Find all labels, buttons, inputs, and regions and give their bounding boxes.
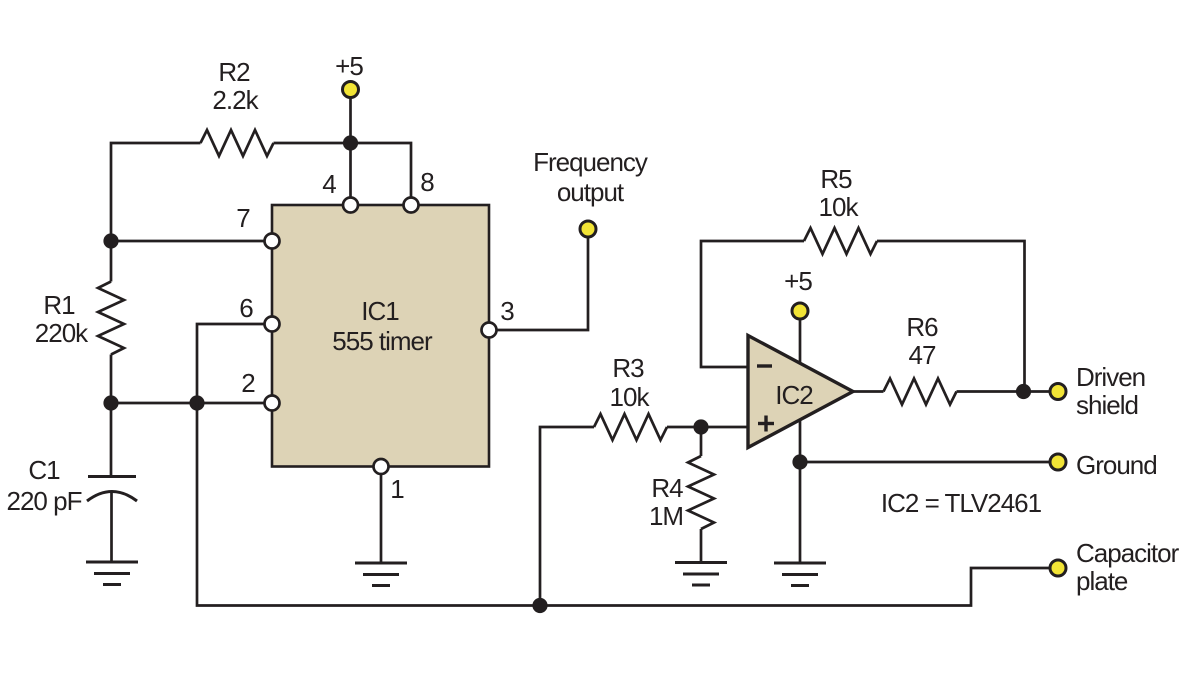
pin 3 [482,323,497,338]
svg-text:output: output [557,177,625,207]
svg-text:plate: plate [1076,566,1128,596]
wire ground rail to terminal [800,461,1050,464]
capacitor C1 [88,475,136,478]
svg-text:R6: R6 [906,312,938,342]
svg-text:Ground: Ground [1076,450,1157,480]
junction supply node [343,135,358,150]
svg-text:10k: 10k [819,192,860,222]
op-amp plus sign [758,422,774,425]
ground (pin 1) [355,563,407,586]
pin 1 [374,459,389,474]
svg-text:+5: +5 [335,51,363,81]
ground (IC2) [774,563,826,586]
terminal driven shield [1050,384,1066,400]
wire pin 6 link [197,324,272,403]
terminal capacitor plate [1050,560,1066,576]
resistor R1 [98,282,124,355]
pin 7 [265,234,280,249]
resistor R3 [594,414,667,440]
terminal frequency output [580,221,596,237]
wire C1 top lead [110,403,113,476]
svg-text:Capacitor: Capacitor [1076,538,1180,568]
junction R1 top [103,233,118,248]
svg-text:1M: 1M [649,501,683,531]
pin 4 [343,198,358,213]
wire R1 top lead [110,241,113,282]
wire R3 left lead and riser to bus [540,427,594,606]
svg-text:IC2 = TLV2461: IC2 = TLV2461 [881,488,1042,518]
op-amp U IC2 [748,336,853,448]
svg-text:220k: 220k [35,318,89,348]
wire op-amp output to R6 [853,390,884,393]
svg-text:IC1: IC1 [361,296,399,326]
junction R1/C1 node [103,395,118,410]
svg-text:555 timer: 555 timer [332,326,433,356]
wire pin 1 to ground [380,467,383,563]
wire node to pin 2 [111,402,272,405]
svg-text:47: 47 [909,340,936,370]
junction R3/R4 node [693,419,708,434]
wire R4 top lead [700,427,703,456]
svg-text:+5: +5 [784,266,812,296]
svg-text:7: 7 [236,203,250,233]
wire R2 left lead down to R1 top junction [111,143,201,241]
svg-text:10k: 10k [610,382,651,412]
op IC1 555 timer body [272,205,489,467]
svg-text:shield: shield [1076,390,1138,420]
wire C1 bottom lead [110,492,113,562]
power +5 terminal (right) [792,303,808,319]
svg-text:IC2: IC2 [775,380,813,410]
svg-text:C1: C1 [28,455,60,485]
resistor R4 [688,456,714,529]
wire +5 supply drop to junction [349,96,352,143]
wire +5 into op-amp top [799,311,802,380]
terminal ground [1050,454,1066,470]
wire R3 right lead to op-amp + input [667,426,749,429]
svg-text:R5: R5 [820,164,852,194]
junction IC2 ground node [792,454,807,469]
pin 6 [265,317,280,332]
wire R2 right lead [274,142,351,145]
ground (C1) [86,562,138,585]
svg-text:Driven: Driven [1076,362,1145,392]
wire sense bus (left drop and bottom run) [197,403,1050,606]
svg-text:R1: R1 [43,290,75,320]
power +5 terminal (left) [343,82,359,98]
svg-text:Frequency: Frequency [533,147,648,177]
svg-text:2.2k: 2.2k [212,85,259,115]
junction driven shield node [1016,384,1031,399]
pin 2 [265,396,280,411]
wire junction to pin 4 [349,143,352,205]
svg-text:3: 3 [500,296,514,326]
wire R6 to driven shield terminal [957,390,1051,393]
pin 8 [404,198,419,213]
svg-text:4: 4 [322,169,336,199]
wire pin 7 to R1 top [111,240,272,243]
ground (R4) [675,563,727,586]
svg-text:R3: R3 [612,353,644,383]
wire junction to pin 8 [351,143,412,205]
wire op-amp V- down to ground [799,405,802,562]
wire R1 bottom lead [110,355,113,404]
svg-text:R4: R4 [651,473,683,503]
svg-text:220 pF: 220 pF [7,486,82,516]
resistor R5 [804,228,877,254]
wire R5 right lead down to output node [877,241,1025,392]
wire pin 3 to frequency output [489,236,588,330]
svg-text:2: 2 [241,368,255,398]
svg-text:6: 6 [239,293,253,323]
svg-text:8: 8 [420,167,434,197]
resistor R2 [201,130,274,156]
wire feedback riser / inverting input [701,241,804,367]
wire R4 bottom lead [700,529,703,562]
op-amp minus sign [757,364,772,367]
junction bus / R3 riser [532,598,547,613]
resistor R6 [884,379,957,405]
svg-text:R2: R2 [218,57,250,87]
svg-text:1: 1 [390,474,404,504]
junction sense node [189,395,204,410]
